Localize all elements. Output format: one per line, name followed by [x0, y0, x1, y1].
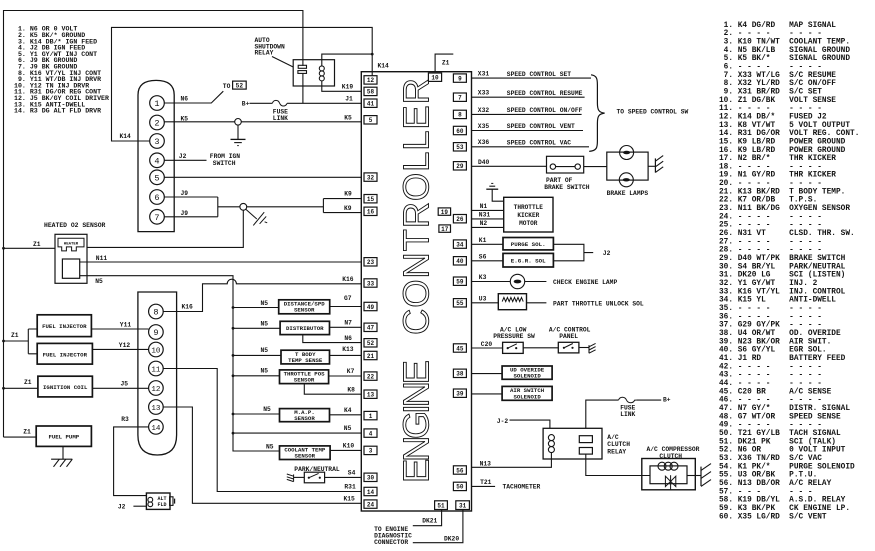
wire N5 branch to controller pin 4: [233, 432, 361, 434]
svg-text:32: 32: [367, 174, 375, 181]
svg-text:SPEED CONTROL VAC: SPEED CONTROL VAC: [507, 140, 571, 147]
connector C1 pin 5: [150, 170, 165, 185]
svg-text:8. X32 YL/RD S/C ON/OFF: 8. X32 YL/RD S/C ON/OFF: [719, 80, 836, 88]
wire ground to park/neutral switch: [294, 476, 305, 478]
wire J9 pin 7: [164, 216, 218, 218]
wire Z1 to fuel pump: [4, 436, 37, 438]
wire X33 speed control: [472, 96, 585, 98]
wire J5 ignition coil to connector pin 12: [92, 387, 148, 389]
connector C2 pin 9: [149, 325, 164, 340]
switch A/C low pressure box: [503, 342, 524, 353]
svg-text:D40: D40: [478, 159, 490, 166]
sensor coolant temp sensor: [280, 446, 331, 460]
svg-text:49. - - - - - - - -: 49. - - - - - - - -: [719, 422, 822, 430]
wire Z1 volt sense stub from pin 10: [435, 54, 453, 72]
svg-text:33. K16 VT/YL INJ. CONTROL: 33. K16 VT/YL INJ. CONTROL: [719, 288, 846, 296]
svg-text:Z1: Z1: [442, 59, 450, 66]
controller pin 1 (left): [364, 411, 377, 420]
svg-text:3. K10 TN/WT COOLANT TEMP.: 3. K10 TN/WT COOLANT TEMP.: [719, 38, 850, 46]
controller pin 47 (left): [364, 323, 377, 332]
controller pin 14 (left): [364, 487, 377, 496]
connector C1 pin 4: [150, 153, 165, 168]
svg-text:31. DK20 LG SCI (LISTEN): 31. DK20 LG SCI (LISTEN): [719, 272, 845, 280]
svg-text:39. N23 BK/OR AIR SWIT.: 39. N23 BK/OR AIR SWIT.: [719, 338, 831, 346]
wire controller pin 39 to air switch solenoid: [472, 393, 503, 395]
svg-text:X32: X32: [478, 107, 490, 114]
svg-text:19. N1 GY/RD THR KICKER: 19. N1 GY/RD THR KICKER: [719, 172, 836, 180]
chassis ground at A/C control panel: [589, 343, 596, 353]
relay ASD coil: [319, 66, 324, 81]
svg-text:PANEL: PANEL: [559, 333, 578, 340]
wire check engine lamp stub: [525, 281, 547, 283]
label FUSE LINK (top): [273, 108, 288, 121]
svg-text:N6: N6: [181, 96, 189, 103]
connector C1 pin 7: [150, 210, 165, 225]
svg-text:J2: J2: [179, 153, 187, 160]
svg-text:S6: S6: [479, 253, 487, 260]
svg-text:48. G7 WT/OR SPEED SENSE: 48. G7 WT/OR SPEED SENSE: [719, 413, 841, 421]
svg-text:30: 30: [367, 475, 375, 482]
wire J2 stub to alternator field: [133, 505, 146, 507]
fuse link symbol (lower): [619, 397, 637, 403]
svg-text:1. K4 DG/RD MAP SIGNAL: 1. K4 DG/RD MAP SIGNAL: [719, 22, 836, 30]
controller pin 41 (left): [364, 99, 377, 108]
svg-text:10: 10: [431, 75, 439, 82]
solenoid UD overide box: [502, 366, 552, 380]
controller pin 26 (right): [453, 215, 466, 224]
controller pin 21 (left): [364, 351, 377, 360]
sensor O2 sense element box: [62, 259, 79, 278]
node junction N5 branch to throttle pos sensor: [232, 374, 235, 377]
svg-text:12: 12: [151, 386, 161, 394]
svg-text:1: 1: [369, 413, 373, 420]
component ignition coil: [38, 376, 93, 397]
svg-text:DK20: DK20: [444, 535, 459, 542]
svg-text:15: 15: [367, 196, 375, 203]
svg-text:K16: K16: [182, 303, 194, 310]
controller pin 45 (right): [453, 344, 466, 353]
svg-text:ENGINE: ENGINE: [396, 360, 437, 483]
svg-text:3: 3: [154, 137, 159, 147]
svg-text:N6: N6: [344, 335, 352, 342]
svg-text:BRAKE LAMPS: BRAKE LAMPS: [607, 190, 649, 197]
svg-text:N7: N7: [344, 319, 352, 326]
svg-text:4. N5 BK/LB SIGNAL GROUND: 4. N5 BK/LB SIGNAL GROUND: [719, 47, 850, 55]
svg-text:59: 59: [456, 279, 464, 286]
svg-text:CLUTCH: CLUTCH: [607, 441, 630, 448]
svg-text:N1: N1: [480, 203, 488, 210]
wire J2 pin 4 to ignition switch: [164, 159, 206, 161]
wire compressor clutch to chassis ground: [687, 475, 701, 477]
wire K5 junction to ground: [237, 125, 239, 139]
wire K5 pin 2 to controller pin 5: [164, 121, 361, 123]
svg-text:56. N13 DB/OR A/C RELAY: 56. N13 DB/OR A/C RELAY: [719, 480, 832, 488]
svg-text:52: 52: [367, 340, 375, 347]
wire G7 distance/speed sensor to controller: [330, 306, 362, 308]
node junction N5 branch to distributor: [232, 327, 235, 330]
wire junction down to O2 heater: [87, 210, 243, 247]
controller pin 30 (left): [364, 473, 377, 482]
controller pin 52 (left): [364, 339, 377, 348]
wire N11 O2 to controller pin 23: [80, 261, 362, 263]
svg-text:Z1: Z1: [24, 379, 32, 386]
label A/C COMPRESSOR CLUTCH: [647, 446, 700, 460]
controller pin 3 (left): [364, 446, 377, 455]
splice symbol at J9 junction: [246, 209, 267, 225]
svg-text:55. U3 OR/BK P.T.U.: 55. U3 OR/BK P.T.U.: [719, 472, 817, 480]
node open junction on K5: [235, 119, 242, 126]
svg-text:THROTTLE: THROTTLE: [514, 204, 544, 211]
svg-text:22. K7 OR/DB T.P.S.: 22. K7 OR/DB T.P.S.: [719, 197, 817, 205]
svg-text:11: 11: [151, 367, 161, 375]
wire A/C control panel to chassis ground: [579, 347, 589, 349]
svg-text:49: 49: [367, 304, 375, 311]
svg-text:15. K9 LB/RD POWER GROUND: 15. K9 LB/RD POWER GROUND: [719, 138, 846, 146]
svg-text:N31: N31: [479, 212, 491, 219]
ground above throttle kicker: [486, 183, 498, 189]
wire PTU solenoid stub: [527, 302, 547, 304]
svg-text:25. - - - - - - - -: 25. - - - - - - - -: [719, 222, 822, 230]
svg-text:34. K15 YL ANTI-DWELL: 34. K15 YL ANTI-DWELL: [719, 297, 836, 305]
svg-text:23. N11 BK/DG OXYGEN SENSOR: 23. N11 BK/DG OXYGEN SENSOR: [719, 205, 850, 213]
svg-text:Z1: Z1: [33, 241, 41, 248]
svg-text:K14: K14: [378, 62, 390, 69]
svg-text:C20: C20: [481, 341, 493, 348]
controller pin 9 (right): [453, 74, 466, 83]
chassis ground at park/neutral switch: [287, 474, 294, 482]
svg-text:5: 5: [369, 117, 373, 124]
svg-text:10. Z1 DG/BK VOLT SENSE: 10. Z1 DG/BK VOLT SENSE: [719, 97, 836, 105]
connector C2 pin 8: [149, 304, 164, 319]
svg-text:K16: K16: [342, 276, 354, 283]
wire controller pin 38 to UD overide solenoid: [472, 373, 503, 375]
wire N7 distributor to controller: [330, 326, 362, 328]
svg-text:9. X31 BR/RD S/C SET: 9. X31 BR/RD S/C SET: [719, 88, 822, 96]
svg-text:N5: N5: [266, 444, 274, 451]
svg-text:K13: K13: [342, 346, 354, 353]
svg-text:30. S4 BR/YL PARK/NEUTRAL: 30. S4 BR/YL PARK/NEUTRAL: [719, 263, 846, 271]
component ALT FLD alternator field: [146, 493, 174, 509]
svg-text:PRESSURE SW: PRESSURE SW: [493, 333, 535, 340]
svg-text:41. J1 RD BATTERY FEED: 41. J1 RD BATTERY FEED: [719, 355, 846, 363]
lamp check engine: [510, 274, 524, 288]
svg-text:T21: T21: [480, 479, 492, 486]
svg-text:SENSOR: SENSOR: [294, 307, 315, 314]
svg-text:RELAY: RELAY: [255, 50, 274, 57]
svg-text:K3: K3: [479, 274, 487, 281]
svg-text:FUEL PUMP: FUEL PUMP: [48, 434, 79, 441]
svg-text:BRAKE SWITCH: BRAKE SWITCH: [544, 184, 590, 191]
wire N5 branch to distance sensor: [233, 307, 279, 309]
svg-text:41: 41: [367, 101, 375, 108]
svg-text:52: 52: [236, 83, 244, 90]
controller pin 5 (left): [364, 116, 377, 125]
controller pin 23 (left): [364, 258, 377, 267]
wire relay contact bottom to J1 battery line: [302, 73, 304, 103]
chassis ground at compressor clutch: [701, 464, 711, 487]
controller pin 32 (left): [364, 173, 377, 182]
controller pin 58 (left): [364, 87, 377, 96]
controller pin 53 (right): [453, 143, 466, 152]
connector C1 pin 1: [150, 96, 165, 111]
svg-text:31: 31: [459, 503, 467, 510]
wire N2 controller pin 17 to throttle kicker: [472, 226, 504, 228]
label ENGINE CONTROLLER (vertical): [396, 78, 437, 483]
svg-text:SPEED CONTROL SET: SPEED CONTROL SET: [507, 71, 571, 78]
wire J-2 to A/C clutch relay coil: [510, 420, 550, 428]
connector C2 pin 12: [149, 381, 164, 396]
controller pin 50 (right): [453, 482, 466, 491]
svg-text:K5: K5: [181, 115, 189, 122]
svg-text:58. K19 DB/YL A.S.D. RELAY: 58. K19 DB/YL A.S.D. RELAY: [719, 497, 846, 505]
svg-text:2. - - - - - - - -: 2. - - - - - - - -: [719, 30, 822, 38]
controller pin 10 (top): [428, 73, 441, 82]
svg-text:Y11: Y11: [120, 321, 132, 328]
svg-text:14: 14: [151, 425, 161, 433]
svg-text:4: 4: [369, 430, 373, 437]
svg-text:K10: K10: [343, 442, 355, 449]
svg-text:47: 47: [367, 325, 375, 332]
svg-text:LINK: LINK: [620, 411, 635, 418]
svg-text:HEATER: HEATER: [64, 243, 79, 247]
wire brake lamps to chassis ground: [648, 165, 655, 167]
svg-text:PART THROTTLE UNLOCK SOL: PART THROTTLE UNLOCK SOL: [553, 300, 644, 307]
wire K9 split bar and branches: [323, 199, 361, 213]
svg-text:24: 24: [367, 501, 375, 508]
svg-text:A/C: A/C: [607, 434, 619, 441]
svg-text:B+: B+: [242, 101, 250, 108]
svg-text:N13: N13: [480, 461, 492, 468]
sensor distributor: [280, 321, 329, 334]
wire X36 speed control: [472, 146, 590, 148]
wire D40 controller pin 29 to brake switch: [472, 165, 547, 167]
relay A/C clutch box: [543, 428, 602, 459]
svg-text:HEATED O2 SENSOR: HEATED O2 SENSOR: [44, 222, 106, 229]
svg-text:18. - - - - - - - -: 18. - - - - - - - -: [719, 163, 822, 171]
sensor T-body temp sensor: [281, 350, 330, 364]
svg-text:9: 9: [458, 75, 462, 82]
connector C2 body: [138, 292, 177, 455]
svg-text:N5: N5: [261, 368, 269, 375]
label PART OF BRAKE SWITCH: [544, 177, 590, 191]
svg-text:TO SPEED CONTROL SW: TO SPEED CONTROL SW: [617, 108, 689, 115]
svg-text:13: 13: [367, 392, 375, 399]
svg-text:8: 8: [458, 112, 462, 119]
controller pin 51 (bottom): [435, 501, 448, 510]
svg-text:8: 8: [153, 308, 158, 318]
wire fuse link to A/C clutch relay contact: [586, 400, 619, 428]
svg-text:Y12: Y12: [119, 342, 131, 349]
controller pin 38 (right): [453, 369, 466, 378]
svg-text:51. DK21 PK SCI (TALK): 51. DK21 PK SCI (TALK): [719, 438, 836, 446]
controller pin 59 (right): [453, 277, 466, 286]
controller pin 4 (left): [364, 429, 377, 438]
svg-text:K8: K8: [347, 387, 355, 394]
wire X32 speed control: [472, 113, 582, 115]
wire K13 T-body temp sensor to controller: [330, 354, 362, 356]
svg-text:J9: J9: [181, 210, 189, 217]
svg-text:20. - - - - - - - -: 20. - - - - - - - -: [719, 180, 822, 188]
legend controller pin wire list (right side): [719, 22, 859, 521]
wire R31 connector pin 11 to controller pin 14: [163, 369, 361, 492]
wire X31 speed control: [472, 77, 592, 79]
svg-text:12: 12: [367, 77, 375, 84]
svg-text:PART OF: PART OF: [546, 177, 573, 184]
wire S6 controller pin 40 to EGR solenoid: [472, 260, 504, 262]
svg-text:56: 56: [456, 467, 464, 474]
sensor throttle position sensor: [280, 370, 329, 384]
wire Z1 to ignition coil: [4, 387, 38, 389]
svg-text:N5: N5: [261, 347, 269, 354]
controller pin 15 (left): [364, 195, 377, 204]
controller pin 60 (right): [453, 126, 466, 135]
svg-text:K1: K1: [479, 237, 487, 244]
svg-text:53: 53: [456, 144, 464, 151]
svg-text:CONNECTOR: CONNECTOR: [374, 539, 408, 546]
wire K9 junction to split bar: [247, 206, 324, 208]
controller pin 13 (left): [364, 390, 377, 399]
svg-text:14. R31 DG/OR VOLT REG. CONT.: 14. R31 DG/OR VOLT REG. CONT.: [719, 130, 859, 138]
svg-text:39: 39: [456, 391, 464, 398]
controller pin 39 (right): [453, 389, 466, 398]
svg-text:53. X36 TN/RD S/C VAC: 53. X36 TN/RD S/C VAC: [719, 455, 822, 463]
svg-text:51: 51: [437, 503, 445, 510]
sensor O2 outer box: [55, 234, 87, 283]
wire B+ to fuse link: [250, 102, 273, 104]
wire DK21 controller pin 51 to diagnostic connector: [413, 510, 442, 526]
svg-text:7. X33 WT/LG S/C RESUME: 7. X33 WT/LG S/C RESUME: [719, 72, 836, 80]
svg-text:K5: K5: [344, 115, 352, 122]
switch A/C control panel box: [558, 342, 579, 353]
svg-text:14. R3 DG ALT FLD DRVR: 14. R3 DG ALT FLD DRVR: [14, 108, 101, 115]
svg-text:13. K8 VT/WT 5 VOLT OUTPUT: 13. K8 VT/WT 5 VOLT OUTPUT: [719, 122, 850, 130]
valve symbol in compressor clutch: [665, 475, 675, 490]
wire ground to throttle kicker: [492, 189, 504, 201]
svg-text:46. - - - - - - - -: 46. - - - - - - - -: [719, 397, 822, 405]
lamp brake upper: [620, 146, 634, 160]
svg-text:55: 55: [456, 300, 464, 307]
controller pin 29 (right): [453, 162, 466, 171]
ref box 52: [233, 81, 247, 90]
connector C2 pin 11: [149, 361, 164, 376]
controller pin 55 (right): [453, 299, 466, 308]
wire relay contact to compressor clutch: [586, 454, 650, 475]
sensor MAP sensor: [280, 409, 330, 422]
solenoid part throttle unlock box: [498, 294, 526, 310]
chassis ground at brake lamps: [655, 156, 663, 173]
wire K7 throttle position sensor to controller: [329, 375, 362, 377]
svg-text:26. N31 VT CLSD. THR. SW.: 26. N31 VT CLSD. THR. SW.: [719, 230, 855, 238]
node open junction J9/K9: [240, 203, 247, 210]
wire K19 relay coil to controller pin 58: [322, 81, 362, 91]
wire N1 controller pin 19 to throttle kicker: [472, 209, 504, 211]
controller pin 19 (inner): [438, 208, 450, 216]
solenoid purge box: [503, 238, 553, 250]
label A/C CONTROL PANEL: [549, 326, 591, 340]
svg-text:29. D40 WT/PK BRAKE SWITCH: 29. D40 WT/PK BRAKE SWITCH: [719, 255, 846, 263]
component A/C compressor clutch outer box: [642, 459, 696, 490]
svg-text:26: 26: [456, 216, 464, 223]
svg-text:45. C20 BR A/C SENSE: 45. C20 BR A/C SENSE: [719, 388, 832, 396]
controller pin 34 (right): [453, 240, 466, 249]
wire DK20 controller pin 31 to diagnostic connector: [413, 510, 463, 543]
svg-text:MOTOR: MOTOR: [519, 220, 538, 227]
svg-text:44. - - - - - - - -: 44. - - - - - - - -: [719, 380, 822, 388]
svg-text:SWITCH: SWITCH: [213, 160, 236, 167]
svg-text:N5: N5: [344, 425, 352, 432]
component fuel injector 2: [37, 343, 92, 364]
svg-text:5: 5: [154, 173, 159, 183]
svg-text:R31: R31: [344, 484, 356, 491]
sensor O2 heater element box: [58, 238, 84, 251]
wire K3 controller pin 59 to check engine lamp: [472, 281, 511, 283]
svg-text:52. N6 OR 0 VOLT INPUT: 52. N6 OR 0 VOLT INPUT: [719, 447, 846, 455]
wire A/C low pressure to control panel: [523, 347, 558, 349]
wire X35 speed control: [472, 130, 584, 132]
wire Y1 pin 5 to controller pin 32: [164, 176, 361, 178]
svg-text:16: 16: [367, 209, 375, 216]
svg-text:N11: N11: [96, 255, 108, 262]
svg-text:6: 6: [154, 193, 159, 203]
svg-text:SPEED CONTROL ON/OFF: SPEED CONTROL ON/OFF: [507, 107, 583, 114]
svg-text:SOLENOID: SOLENOID: [513, 373, 541, 380]
wire K4 MAP sensor to controller: [330, 414, 362, 416]
svg-text:N5: N5: [261, 300, 269, 307]
relay ASD contact bars: [298, 65, 307, 73]
wire K16 connector pin 8 to controller pin 33 (hops N5 bus): [163, 279, 361, 311]
svg-text:K4: K4: [344, 407, 352, 414]
controller pin 24 (left): [364, 500, 377, 509]
svg-text:S4: S4: [348, 470, 356, 477]
svg-text:FROM IGN: FROM IGN: [210, 153, 240, 160]
svg-text:IGNITION COIL: IGNITION COIL: [43, 384, 88, 391]
svg-text:50: 50: [456, 484, 464, 491]
svg-text:47. N7 GY/* DISTR. SIGNAL: 47. N7 GY/* DISTR. SIGNAL: [719, 405, 850, 413]
wire B+ to fuse link (lower): [636, 399, 661, 401]
connector C1 pin 3: [150, 134, 165, 149]
svg-text:U3: U3: [479, 295, 487, 302]
svg-text:5. K5 BK/* SIGNAL GROUND: 5. K5 BK/* SIGNAL GROUND: [719, 55, 850, 63]
svg-text:X36: X36: [478, 139, 490, 146]
wire N5 branch to distributor: [233, 327, 280, 329]
svg-text:2: 2: [154, 119, 159, 129]
svg-text:N2: N2: [480, 220, 488, 227]
svg-text:36. - - - - - - - -: 36. - - - - - - - -: [719, 313, 822, 321]
wire T21 controller pin 50 to tachometer: [472, 485, 496, 487]
svg-text:R3: R3: [121, 416, 129, 423]
wire K15 connector pin 13 to controller pin 24: [163, 407, 361, 503]
svg-text:J9: J9: [181, 190, 189, 197]
controller pin 22 (left): [364, 372, 377, 381]
wire Z1 to fuel injectors: [4, 329, 38, 354]
svg-text:FLD: FLD: [157, 502, 166, 508]
svg-text:X31: X31: [478, 71, 490, 78]
svg-text:J5: J5: [121, 380, 129, 387]
svg-text:SENSOR: SENSOR: [295, 453, 316, 460]
node junction N5 branch to MAP sensor: [232, 413, 235, 416]
svg-text:1: 1: [154, 99, 159, 109]
component fuel injector 1: [37, 315, 91, 337]
svg-text:J2: J2: [603, 250, 611, 257]
connector C1 pin 2: [150, 115, 165, 130]
svg-text:TACHOMETER: TACHOMETER: [503, 483, 541, 490]
svg-text:16. K9 LB/RD POWER GROUND: 16. K9 LB/RD POWER GROUND: [719, 147, 846, 155]
svg-text:58: 58: [367, 89, 375, 96]
lamp brake lower: [619, 173, 633, 187]
U1 engine controller box: [361, 72, 471, 511]
svg-text:X33: X33: [478, 90, 490, 97]
svg-text:54. K1 PK/* PURGE SOLENOID: 54. K1 PK/* PURGE SOLENOID: [719, 463, 855, 471]
